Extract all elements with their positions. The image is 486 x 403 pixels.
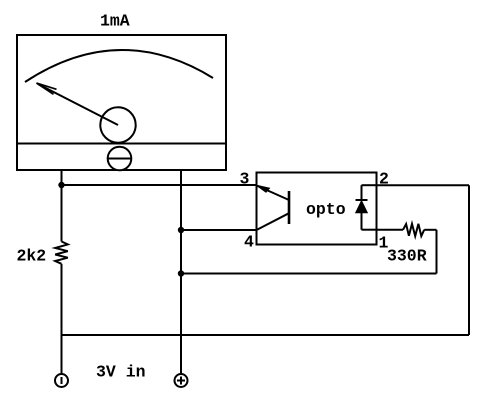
meter M1 body (17, 35, 226, 170)
terminal minus (55, 374, 68, 387)
wire node to 330R return (181, 273, 437, 275)
svg-text:2k2: 2k2 (17, 247, 47, 266)
node junction dot lower (178, 270, 184, 276)
wire node to opto pin 4 (181, 229, 256, 231)
wire meter right lead (180, 170, 182, 230)
node junction dot pin4 (178, 227, 184, 233)
svg-text:3V in: 3V in (96, 363, 146, 382)
meter scale arc (25, 50, 213, 82)
wire right rail vertical (468, 185, 470, 335)
svg-text:330R: 330R (387, 247, 427, 266)
svg-text:4: 4 (244, 233, 254, 252)
optocoupler U1 body (257, 173, 377, 245)
wire node to opto pin 3 (62, 184, 257, 186)
svg-text:opto: opto (306, 200, 346, 219)
LED branch bottom wire (362, 229, 377, 231)
meter needle (37, 83, 119, 125)
meter zero-adjust screw (108, 147, 132, 171)
node junction dot left (58, 182, 64, 188)
wire to plus terminal (180, 274, 182, 375)
terminal plus (175, 374, 188, 387)
wire 330R drop down (436, 230, 438, 274)
wire 2k2 to minus terminal (61, 264, 63, 374)
resistor 330R (403, 224, 424, 236)
wire 330R to corner (424, 229, 436, 231)
svg-text:1mA: 1mA (100, 12, 130, 31)
wire opto pin 2 to right rail (377, 184, 469, 186)
wire opto pin 1 to 330R (377, 229, 403, 231)
resistor 2k2 (55, 242, 68, 264)
LED D1 (356, 185, 368, 230)
svg-text:3: 3 (240, 170, 250, 189)
phototransistor emitter line pin 4 (257, 213, 290, 230)
wire meter left lead (61, 170, 63, 242)
phototransistor arrow (257, 185, 270, 192)
LED branch top wire (362, 184, 377, 186)
meter pivot circle (100, 107, 135, 142)
wire bottom rail (62, 334, 470, 336)
wire right lead continues (180, 230, 182, 274)
phototransistor collector line pin 3 (257, 186, 290, 201)
phototransistor base bar (288, 191, 291, 224)
